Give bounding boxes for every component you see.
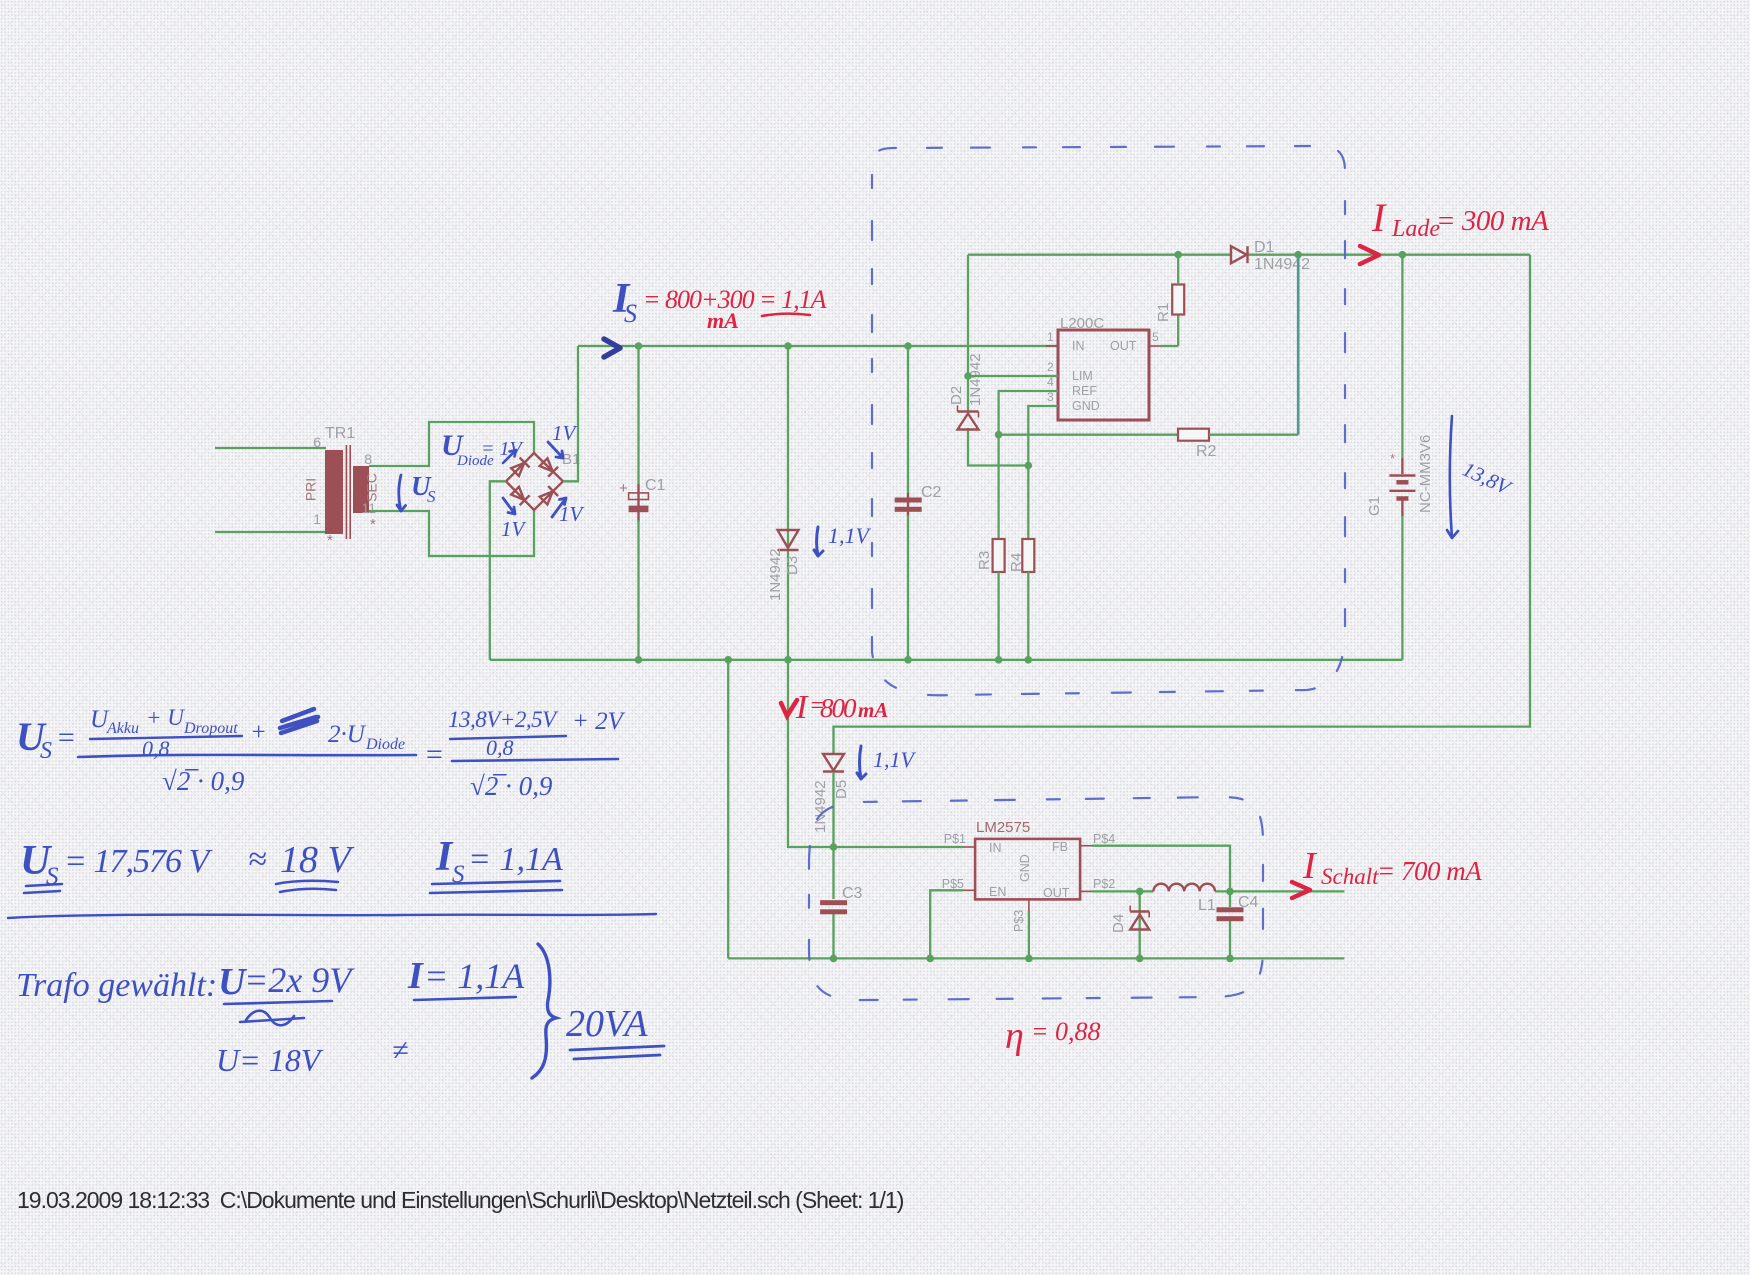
svg-text:η: η <box>1005 1015 1024 1057</box>
svg-text:≠: ≠ <box>392 1034 408 1067</box>
svg-text:13,8V: 13,8V <box>1459 457 1516 501</box>
node main bus D3 <box>784 342 792 350</box>
wire FB branch <box>1092 846 1230 959</box>
svg-text:= 700 mA: = 700 mA <box>1377 856 1482 886</box>
svg-text:*: * <box>370 516 376 533</box>
svg-text:I: I <box>795 689 809 726</box>
capacitor C2 <box>895 484 942 512</box>
svg-text:18 V: 18 V <box>280 839 355 881</box>
wire R1 upper <box>1177 255 1179 285</box>
wire R2 right <box>1209 434 1298 436</box>
svg-text:= 1V: = 1V <box>481 438 524 460</box>
svg-text:I: I <box>1302 845 1318 887</box>
svg-text:C1: C1 <box>645 477 666 494</box>
annotation 1,1V at D3 <box>814 523 872 556</box>
resistor R3 <box>976 539 1005 572</box>
svg-text:IN: IN <box>1072 339 1085 353</box>
annotation 1V top right arrow <box>548 421 578 458</box>
svg-text:5: 5 <box>1152 330 1159 344</box>
svg-text:= 1,1A: = 1,1A <box>468 841 563 878</box>
svg-text:13,8V+2,5V: 13,8V+2,5V <box>448 707 559 732</box>
svg-text:6: 6 <box>313 434 321 450</box>
annotation red I_Schalt <box>1302 845 1482 889</box>
diode D3 <box>767 530 801 601</box>
node R2 REF branch <box>995 431 1003 439</box>
wire EN branch <box>930 890 963 958</box>
node OUT row D4 <box>1136 888 1144 896</box>
wire R4 to ground bus <box>1027 572 1029 660</box>
dashed box charger <box>872 146 1345 695</box>
svg-text:P$5: P$5 <box>942 877 964 891</box>
svg-text:S: S <box>427 487 436 506</box>
regulator U1 L200C <box>1046 315 1161 420</box>
svg-text:+ U: + U <box>146 705 185 730</box>
svg-text:1: 1 <box>313 511 321 527</box>
svg-text:FB: FB <box>1052 840 1068 854</box>
svg-text:R1: R1 <box>1155 303 1172 322</box>
footer text <box>17 1187 903 1214</box>
svg-text:1V: 1V <box>501 517 527 541</box>
resistor R4 <box>1008 539 1034 572</box>
node main bus C1 <box>635 342 643 350</box>
svg-text:Diode: Diode <box>365 736 405 753</box>
node top rail R1 <box>1174 251 1182 259</box>
svg-text:SEC: SEC <box>364 473 380 502</box>
wire C3 branch <box>832 847 834 958</box>
svg-text:D5: D5 <box>833 780 850 799</box>
svg-text:√2̅ · 0,9: √2̅ · 0,9 <box>470 771 553 801</box>
svg-text:GND: GND <box>1072 399 1100 413</box>
svg-text:C3: C3 <box>842 885 863 902</box>
battery G1 wire bottom <box>1401 499 1403 660</box>
svg-text:LM2575: LM2575 <box>976 819 1030 836</box>
wire top rail right <box>1247 254 1530 256</box>
node sub bus C4 <box>1226 955 1234 963</box>
svg-text:1N4942: 1N4942 <box>967 353 984 406</box>
svg-text:mA: mA <box>707 308 739 333</box>
svg-text:+: + <box>250 719 267 746</box>
inductor L1 <box>1153 884 1215 914</box>
node sub bus C3 <box>830 955 838 963</box>
battery G1 wire top <box>1401 255 1403 474</box>
wire D3 branch <box>787 346 789 660</box>
diode D1 <box>1231 239 1310 273</box>
svg-text:0,8: 0,8 <box>142 736 170 761</box>
resistor R1 <box>1155 285 1184 323</box>
node ground bus LM branch <box>724 656 732 664</box>
svg-text:20VA: 20VA <box>566 1003 648 1045</box>
wire AC input bottom <box>215 531 326 533</box>
capacitor C1 <box>619 477 666 512</box>
wire right rail <box>834 255 1531 754</box>
annotation 1,1V at D5 <box>857 746 917 779</box>
annotation blue bus arrow <box>604 339 620 357</box>
svg-text:=2x 9V: =2x 9V <box>244 960 355 1000</box>
node LIM D2 <box>964 372 972 380</box>
svg-text:Trafo gewählt:: Trafo gewählt: <box>16 967 217 1004</box>
svg-text:D1: D1 <box>1254 239 1275 256</box>
wire OUT pin to R1 <box>1161 345 1178 347</box>
battery G1 <box>1366 435 1434 516</box>
svg-text:√2̅ · 0,9: √2̅ · 0,9 <box>162 766 245 796</box>
wire LM input branch <box>788 660 963 847</box>
svg-text:S: S <box>40 738 52 764</box>
svg-text:800: 800 <box>820 693 857 723</box>
svg-text:2: 2 <box>1047 360 1054 374</box>
node ground bus D3 <box>784 656 792 664</box>
formula Us main <box>16 705 626 801</box>
svg-text:OUT: OUT <box>1043 886 1070 900</box>
svg-text:R2: R2 <box>1196 443 1217 460</box>
separator line <box>8 914 656 918</box>
svg-text:G1: G1 <box>1366 496 1383 516</box>
annotation 1V bottom left arrow <box>501 498 527 541</box>
wire LIM to D2 branch <box>968 375 1058 377</box>
wire top rail left <box>968 254 1232 256</box>
svg-text:D2: D2 <box>948 386 965 405</box>
dashed box switcher <box>809 797 1263 1000</box>
svg-text:mA: mA <box>858 698 888 722</box>
svg-text:1,1V: 1,1V <box>828 523 872 548</box>
formula Is result <box>430 834 563 893</box>
wire D2 branch lower <box>968 428 1028 466</box>
wire D4 branch <box>1139 891 1141 958</box>
svg-text:IN: IN <box>989 841 1002 855</box>
wire secondary bottom <box>369 510 534 556</box>
resistor R2 <box>1178 429 1217 460</box>
svg-text:EN: EN <box>989 885 1006 899</box>
transformer TR1 <box>303 425 380 549</box>
node sub bus D4 <box>1136 955 1144 963</box>
annotation 1V bottom right arrow <box>552 498 585 526</box>
svg-text:R3: R3 <box>976 551 993 570</box>
svg-text:I: I <box>1371 195 1387 240</box>
svg-text:1: 1 <box>1047 330 1054 344</box>
svg-text:Schalt: Schalt <box>1321 864 1379 889</box>
annotation 13,8V battery <box>1447 416 1516 538</box>
brace and 20VA <box>532 944 664 1078</box>
svg-text:Lade: Lade <box>1391 216 1440 242</box>
svg-text:=: = <box>56 721 76 754</box>
wire C2 branch <box>907 346 909 660</box>
annotation red Is equation <box>643 285 827 333</box>
svg-text:1,1V: 1,1V <box>873 747 917 772</box>
wire LM GND pin <box>1028 911 1030 958</box>
annotation red eta <box>1005 1015 1101 1057</box>
formula Us result <box>20 838 355 893</box>
svg-text:L200C: L200C <box>1060 315 1104 332</box>
svg-text:0,8: 0,8 <box>486 735 514 760</box>
annotation blue Is label <box>612 276 637 328</box>
svg-text:NC-MM3V6: NC-MM3V6 <box>1417 435 1434 513</box>
svg-text:PRI: PRI <box>303 478 319 501</box>
node sub bus EN <box>926 955 934 963</box>
regulator U2 LM2575 <box>942 819 1116 932</box>
svg-text:= 0,88: = 0,88 <box>1031 1017 1101 1046</box>
diode D4 <box>1110 906 1149 934</box>
node sub bus LM GND <box>1025 955 1033 963</box>
svg-text:8: 8 <box>364 451 372 467</box>
svg-text:I: I <box>407 955 424 997</box>
svg-text:OUT: OUT <box>1110 339 1137 353</box>
wire LM sub bus <box>728 957 1344 959</box>
annotation U_Diode = 1V <box>441 429 524 469</box>
wire C1 branch <box>637 346 639 660</box>
svg-text:≈: ≈ <box>248 841 267 878</box>
capacitor C4 <box>1217 894 1259 921</box>
svg-text:1N4942: 1N4942 <box>812 780 829 833</box>
wire secondary top <box>369 422 534 466</box>
capacitor C3 <box>820 885 862 914</box>
annotation Us arrow <box>397 471 436 511</box>
node top rail battery <box>1399 251 1407 259</box>
bridge rectifier B1 <box>506 451 580 510</box>
svg-text:1V: 1V <box>559 502 585 526</box>
svg-text:LIM: LIM <box>1072 369 1093 383</box>
wire AC input top <box>215 447 326 449</box>
svg-text:+ 2V: + 2V <box>572 708 626 735</box>
svg-text:GND: GND <box>1018 854 1032 882</box>
node main bus C2 <box>904 342 912 350</box>
node D2 to GND branch <box>1025 462 1033 470</box>
node ground bus C2 <box>904 656 912 664</box>
node top rail R2 drop <box>1294 251 1302 259</box>
svg-text:R4: R4 <box>1008 553 1025 572</box>
wire R1 lower <box>1177 315 1179 347</box>
node D5 LM input <box>830 843 838 851</box>
wire R3 to ground bus <box>997 572 999 660</box>
wire REF branch <box>999 391 1058 539</box>
wire GND branch <box>1028 406 1058 539</box>
formula I result <box>392 955 525 1067</box>
svg-text:+: + <box>619 480 628 497</box>
svg-text:D4: D4 <box>1110 914 1127 933</box>
wire D5 to LM input <box>832 772 834 847</box>
ground bus <box>490 659 1403 661</box>
wire LM left branch vertical <box>727 660 729 959</box>
svg-text:Akku: Akku <box>106 720 139 737</box>
svg-text:REF: REF <box>1072 384 1097 398</box>
formula Trafo gewaehlt <box>16 960 355 1078</box>
svg-text:1V: 1V <box>552 421 578 445</box>
svg-text:Dropout: Dropout <box>183 720 238 737</box>
svg-text:P$3: P$3 <box>1012 910 1026 932</box>
svg-text:*: * <box>1390 451 1395 466</box>
svg-text:C2: C2 <box>921 484 942 501</box>
node ground bus C1 <box>635 656 643 664</box>
svg-text:1N4942: 1N4942 <box>1254 256 1310 273</box>
annotation red arrow top <box>1360 246 1379 264</box>
wire LM OUT row <box>1092 890 1344 892</box>
svg-text:= 300 mA: = 300 mA <box>1436 205 1549 237</box>
wire bridge left to ground bus <box>490 481 506 660</box>
annotation red arrow out <box>1292 882 1310 898</box>
wire bridge right to main bus <box>563 346 578 481</box>
svg-text:=: = <box>424 738 444 771</box>
wire R2 left <box>999 434 1178 436</box>
diode D5 <box>812 754 850 833</box>
svg-text:1N4942: 1N4942 <box>767 548 784 601</box>
svg-text:P$1: P$1 <box>944 832 966 846</box>
svg-text:U= 18V: U= 18V <box>216 1042 324 1078</box>
annotation red I=800mA <box>781 689 888 726</box>
svg-text:2·U: 2·U <box>328 721 367 748</box>
node FB OUT row <box>1226 888 1234 896</box>
diode D2 <box>948 353 984 429</box>
svg-text:P$2: P$2 <box>1093 877 1115 891</box>
wire main bus <box>578 345 1058 347</box>
node ground bus R3 <box>995 656 1003 664</box>
svg-text:*: * <box>327 532 333 549</box>
svg-text:= 1,1A: = 1,1A <box>424 956 525 996</box>
node ground bus R4 <box>1025 656 1033 664</box>
wire D2 branch upper <box>967 255 969 412</box>
svg-text:L1: L1 <box>1198 897 1216 914</box>
svg-text:D3: D3 <box>784 556 801 575</box>
svg-text:S: S <box>624 299 637 328</box>
svg-text:C4: C4 <box>1238 894 1259 911</box>
wire D1 junction drop <box>1297 255 1300 435</box>
svg-text:P$4: P$4 <box>1093 832 1115 846</box>
annotation red I_Lade <box>1371 195 1549 242</box>
svg-text:= 17,576 V: = 17,576 V <box>64 843 213 880</box>
svg-text:TR1: TR1 <box>325 425 355 442</box>
